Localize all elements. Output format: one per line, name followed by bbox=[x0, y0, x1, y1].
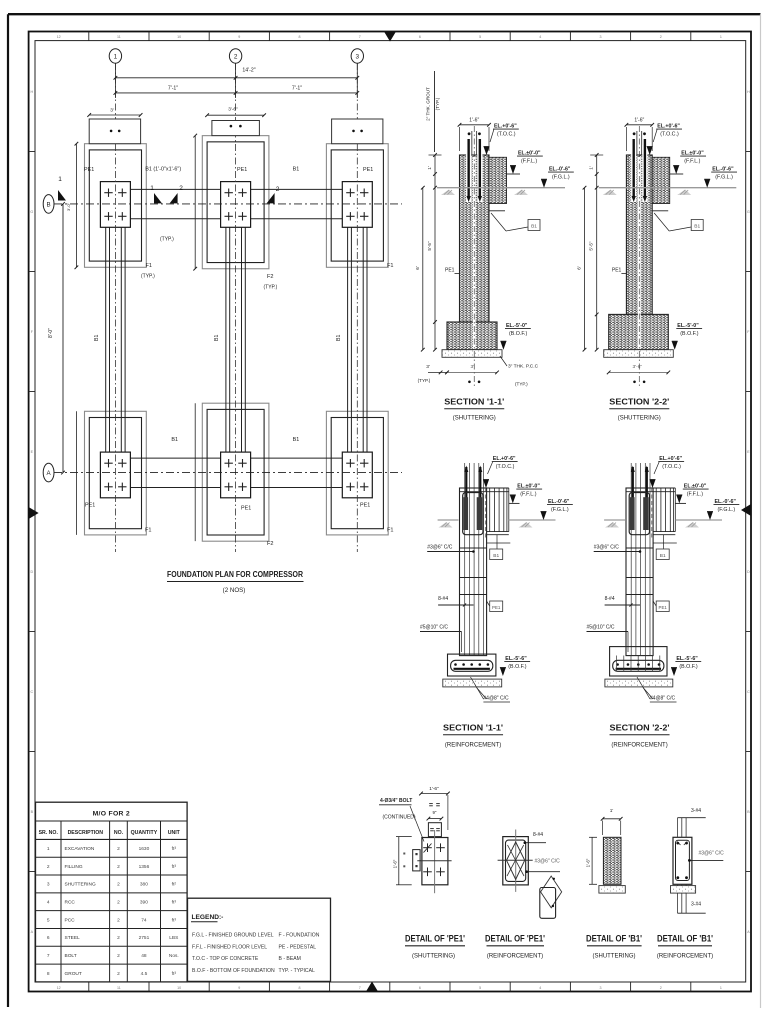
svg-text:ft³: ft³ bbox=[172, 917, 177, 923]
svg-text:EL.-5'-0": EL.-5'-0" bbox=[677, 323, 699, 329]
svg-text:11: 11 bbox=[117, 35, 121, 39]
svg-text:PE1: PE1 bbox=[612, 268, 622, 274]
svg-text:(TYP.): (TYP.) bbox=[435, 97, 440, 110]
svg-text:74: 74 bbox=[141, 917, 147, 923]
svg-text:SHUTTERING: SHUTTERING bbox=[65, 882, 96, 888]
svg-text:STEEL: STEEL bbox=[65, 935, 81, 941]
svg-text:EL.±0'-0": EL.±0'-0" bbox=[681, 151, 704, 157]
svg-text:DETAIL OF 'B1': DETAIL OF 'B1' bbox=[657, 934, 713, 944]
svg-text:PCC: PCC bbox=[65, 917, 76, 923]
svg-text:8: 8 bbox=[47, 971, 50, 977]
svg-text:1'-6": 1'-6" bbox=[634, 117, 644, 123]
svg-text:1356: 1356 bbox=[139, 864, 150, 870]
svg-text:2: 2 bbox=[117, 882, 120, 888]
svg-text:(SHUTTERING): (SHUTTERING) bbox=[453, 416, 496, 422]
svg-text:6': 6' bbox=[415, 266, 420, 270]
svg-text:F1: F1 bbox=[387, 263, 394, 269]
svg-text:48: 48 bbox=[141, 953, 147, 959]
svg-text:1'-6": 1'-6" bbox=[429, 786, 439, 792]
svg-text:2: 2 bbox=[117, 953, 120, 959]
svg-text:1'-6": 1'-6" bbox=[392, 859, 397, 868]
svg-text:3" THK. P.C.C: 3" THK. P.C.C bbox=[508, 364, 539, 370]
svg-text:(TYP.): (TYP.) bbox=[515, 382, 528, 387]
svg-text:EXCAVATION: EXCAVATION bbox=[65, 846, 95, 852]
svg-text:C: C bbox=[747, 690, 750, 694]
svg-text:(REINFORCEMENT): (REINFORCEMENT) bbox=[657, 954, 713, 960]
svg-text:3: 3 bbox=[356, 53, 360, 60]
svg-text:B1: B1 bbox=[660, 553, 666, 559]
svg-text:DETAIL OF 'B1': DETAIL OF 'B1' bbox=[586, 934, 642, 944]
svg-text:9: 9 bbox=[238, 986, 240, 990]
svg-text:5: 5 bbox=[479, 35, 481, 39]
svg-text:SECTION '2-2': SECTION '2-2' bbox=[610, 723, 670, 733]
svg-text:3-#4: 3-#4 bbox=[691, 902, 701, 908]
svg-text:G: G bbox=[747, 210, 750, 214]
svg-text:3: 3 bbox=[600, 986, 602, 990]
svg-text:SECTION '1-1': SECTION '1-1' bbox=[443, 723, 503, 733]
svg-text:D: D bbox=[747, 570, 750, 574]
svg-text:3'-0": 3'-0" bbox=[66, 202, 71, 211]
svg-text:F.G.L - FINISHED GROUND LEVEL: F.G.L - FINISHED GROUND LEVEL bbox=[192, 933, 274, 939]
svg-text:(F.F.L.): (F.F.L.) bbox=[684, 159, 700, 165]
svg-text:EL.+0'-6": EL.+0'-6" bbox=[494, 124, 517, 130]
svg-text:2: 2 bbox=[117, 935, 120, 941]
svg-text:PE1: PE1 bbox=[237, 167, 247, 173]
svg-text:PE1: PE1 bbox=[445, 268, 455, 274]
svg-text:EL.-5'-6": EL.-5'-6" bbox=[505, 656, 527, 662]
svg-text:(B.O.F.): (B.O.F.) bbox=[508, 664, 526, 670]
svg-text:4: 4 bbox=[539, 35, 541, 39]
svg-text:B.O.F - BOTTOM OF FOUNDATION: B.O.F - BOTTOM OF FOUNDATION bbox=[192, 968, 275, 974]
svg-text:B - BEAM: B - BEAM bbox=[279, 956, 301, 962]
svg-text:PE1: PE1 bbox=[360, 503, 370, 509]
svg-text:F1: F1 bbox=[387, 528, 394, 534]
svg-text:G: G bbox=[30, 210, 33, 214]
svg-text:2: 2 bbox=[117, 864, 120, 870]
svg-text:F2: F2 bbox=[267, 274, 274, 280]
svg-text:7'-1": 7'-1" bbox=[292, 86, 302, 92]
svg-text:ft³: ft³ bbox=[172, 900, 177, 906]
svg-text:7: 7 bbox=[359, 35, 361, 39]
svg-text:D: D bbox=[30, 570, 33, 574]
svg-text:10: 10 bbox=[177, 35, 181, 39]
svg-text:PE1: PE1 bbox=[492, 605, 501, 610]
svg-text:1: 1 bbox=[720, 986, 722, 990]
svg-text:T.O.C - TOP OF CONCRETE: T.O.C - TOP OF CONCRETE bbox=[192, 956, 259, 962]
svg-text:12: 12 bbox=[57, 35, 61, 39]
svg-text:6: 6 bbox=[419, 35, 421, 39]
svg-text:5'-5": 5'-5" bbox=[427, 241, 432, 251]
svg-text:14'-2": 14'-2" bbox=[242, 68, 255, 74]
svg-text:TYP. - TYPICAL: TYP. - TYPICAL bbox=[279, 968, 315, 974]
svg-text:2: 2 bbox=[117, 917, 120, 923]
svg-text:H: H bbox=[747, 90, 750, 94]
svg-text:B1 (1'-0"x1'-6"): B1 (1'-0"x1'-6") bbox=[145, 167, 181, 173]
svg-text:F.F.L - FINISHED FLOOR LEVEL: F.F.L - FINISHED FLOOR LEVEL bbox=[192, 944, 267, 950]
svg-text:380: 380 bbox=[140, 882, 148, 888]
svg-text:EL.-5'-6": EL.-5'-6" bbox=[676, 656, 698, 662]
svg-text:PE1: PE1 bbox=[363, 167, 373, 173]
svg-text:SR. NO.: SR. NO. bbox=[39, 830, 59, 836]
svg-text:1': 1' bbox=[610, 808, 614, 814]
svg-text:(F.G.L.): (F.G.L.) bbox=[715, 175, 733, 181]
svg-text:FILLING: FILLING bbox=[65, 864, 83, 870]
svg-text:EL.+0'-6": EL.+0'-6" bbox=[659, 456, 682, 462]
svg-text:2" THK. GROUT: 2" THK. GROUT bbox=[425, 87, 430, 121]
svg-text:EL.-0'-6": EL.-0'-6" bbox=[715, 499, 737, 505]
svg-text:SECTION '2-2': SECTION '2-2' bbox=[609, 397, 669, 407]
svg-text:(TYP.): (TYP.) bbox=[264, 285, 278, 291]
svg-text:4: 4 bbox=[47, 900, 50, 906]
svg-text:PE1: PE1 bbox=[84, 167, 94, 173]
svg-text:5: 5 bbox=[479, 986, 481, 990]
svg-text:1: 1 bbox=[720, 35, 722, 39]
svg-text:8'-0": 8'-0" bbox=[48, 328, 54, 338]
svg-text:ft³: ft³ bbox=[172, 846, 177, 852]
svg-text:6': 6' bbox=[577, 266, 582, 270]
svg-text:DETAIL OF 'PE1': DETAIL OF 'PE1' bbox=[405, 934, 465, 944]
svg-text:(B.O.F.): (B.O.F.) bbox=[509, 331, 527, 337]
svg-text:1630: 1630 bbox=[139, 846, 150, 852]
svg-text:RCC: RCC bbox=[65, 900, 76, 906]
svg-text:1: 1 bbox=[58, 176, 62, 183]
svg-text:#3@6" C/C: #3@6" C/C bbox=[535, 859, 561, 865]
svg-text:B1: B1 bbox=[531, 224, 537, 230]
svg-text:NO.: NO. bbox=[114, 830, 124, 836]
svg-text:5'-5": 5'-5" bbox=[589, 241, 594, 251]
svg-text:(TYP.): (TYP.) bbox=[141, 274, 155, 280]
svg-text:2: 2 bbox=[660, 35, 662, 39]
svg-text:ft²: ft² bbox=[172, 882, 177, 888]
svg-text:2: 2 bbox=[117, 846, 120, 852]
svg-text:4: 4 bbox=[539, 986, 541, 990]
svg-text:PE1: PE1 bbox=[241, 506, 251, 512]
svg-text:8-#4: 8-#4 bbox=[605, 596, 615, 602]
svg-text:F1: F1 bbox=[145, 528, 152, 534]
svg-text:3: 3 bbox=[600, 35, 602, 39]
svg-text:1': 1' bbox=[589, 166, 594, 170]
svg-text:1: 1 bbox=[47, 846, 50, 852]
svg-text:(TYP.): (TYP.) bbox=[160, 237, 174, 243]
svg-text:(F.G.L.): (F.G.L.) bbox=[718, 507, 736, 513]
svg-text:EL.+0'-6": EL.+0'-6" bbox=[493, 456, 516, 462]
svg-text:F1: F1 bbox=[146, 263, 153, 269]
svg-text:3': 3' bbox=[426, 364, 430, 370]
svg-text:#5@10" C/C: #5@10" C/C bbox=[420, 625, 448, 631]
svg-text:(SHUTTERING): (SHUTTERING) bbox=[593, 954, 636, 960]
svg-text:QUANTITY: QUANTITY bbox=[131, 830, 158, 836]
svg-text:(F.F.L.): (F.F.L.) bbox=[687, 492, 703, 498]
svg-text:#3@6" C/C: #3@6" C/C bbox=[427, 545, 453, 551]
svg-text:2: 2 bbox=[234, 53, 238, 60]
svg-text:(F.F.L.): (F.F.L.) bbox=[521, 159, 537, 165]
svg-text:(REINFORCEMENT): (REINFORCEMENT) bbox=[487, 954, 543, 960]
svg-text:(T.O.C.): (T.O.C.) bbox=[662, 464, 681, 470]
svg-text:(CONTINUED): (CONTINUED) bbox=[383, 815, 416, 821]
svg-text:DESCRIPTION: DESCRIPTION bbox=[68, 830, 104, 836]
svg-text:(REINFORCEMENT): (REINFORCEMENT) bbox=[445, 743, 501, 749]
svg-text:EL.-0'-6": EL.-0'-6" bbox=[549, 167, 571, 173]
svg-text:PE - PEDESTAL: PE - PEDESTAL bbox=[279, 944, 317, 950]
svg-text:6: 6 bbox=[419, 986, 421, 990]
svg-text:7'-1": 7'-1" bbox=[168, 86, 178, 92]
svg-text:EL.±0'-0": EL.±0'-0" bbox=[517, 484, 540, 490]
svg-text:2: 2 bbox=[660, 986, 662, 990]
svg-text:4.5: 4.5 bbox=[141, 971, 148, 977]
svg-text:DETAIL OF 'PE1': DETAIL OF 'PE1' bbox=[485, 934, 545, 944]
svg-text:1'-6": 1'-6" bbox=[469, 117, 479, 123]
svg-text:12: 12 bbox=[57, 986, 61, 990]
svg-text:(T.O.C.): (T.O.C.) bbox=[496, 464, 515, 470]
svg-text:2: 2 bbox=[117, 900, 120, 906]
svg-text:3': 3' bbox=[470, 364, 474, 370]
svg-text:#3@6" C/C: #3@6" C/C bbox=[594, 545, 620, 551]
svg-text:Nos.: Nos. bbox=[169, 953, 179, 959]
svg-text:2: 2 bbox=[276, 186, 280, 193]
svg-text:ft³: ft³ bbox=[172, 864, 177, 870]
svg-text:B1: B1 bbox=[293, 167, 300, 173]
svg-text:8-#4: 8-#4 bbox=[438, 596, 448, 602]
svg-text:8-#4: 8-#4 bbox=[533, 832, 543, 838]
svg-text:UNIT: UNIT bbox=[168, 830, 181, 836]
svg-text:6: 6 bbox=[47, 935, 50, 941]
svg-text:B1: B1 bbox=[94, 335, 100, 341]
svg-text:2: 2 bbox=[117, 971, 120, 977]
svg-text:EL.±0'-0": EL.±0'-0" bbox=[684, 484, 707, 490]
svg-text:EL.+0'-6": EL.+0'-6" bbox=[657, 124, 680, 130]
svg-text:1'-6": 1'-6" bbox=[586, 858, 591, 867]
svg-text:2: 2 bbox=[179, 185, 183, 192]
svg-text:B1: B1 bbox=[293, 437, 300, 443]
svg-text:B1: B1 bbox=[214, 335, 220, 341]
svg-text:3': 3' bbox=[110, 108, 114, 114]
svg-text:B1: B1 bbox=[336, 335, 342, 341]
svg-text:(F.G.L.): (F.G.L.) bbox=[552, 175, 570, 181]
svg-text:1: 1 bbox=[114, 53, 118, 60]
svg-text:(F.F.L.): (F.F.L.) bbox=[520, 492, 536, 498]
svg-text:390: 390 bbox=[140, 900, 148, 906]
svg-text:(REINFORCEMENT): (REINFORCEMENT) bbox=[611, 743, 667, 749]
svg-text:3: 3 bbox=[47, 882, 50, 888]
svg-text:B1: B1 bbox=[493, 553, 499, 559]
svg-text:B1: B1 bbox=[171, 437, 178, 443]
svg-text:EL.-0'-6": EL.-0'-6" bbox=[548, 499, 570, 505]
svg-text:4-Ø3/4" BOLT: 4-Ø3/4" BOLT bbox=[380, 798, 412, 804]
svg-text:#4@8" C/C: #4@8" C/C bbox=[483, 696, 509, 702]
svg-text:GROUT: GROUT bbox=[65, 971, 82, 977]
svg-text:2: 2 bbox=[47, 864, 50, 870]
svg-text:9: 9 bbox=[238, 35, 240, 39]
svg-text:1: 1 bbox=[150, 185, 154, 192]
svg-text:BOLT: BOLT bbox=[65, 953, 77, 959]
svg-text:C: C bbox=[30, 690, 33, 694]
svg-text:(B.O.F.): (B.O.F.) bbox=[680, 331, 698, 337]
svg-text:FOUNDATION PLAN FOR COMPRESSOR: FOUNDATION PLAN FOR COMPRESSOR bbox=[167, 569, 304, 579]
svg-text:EL.-0'-6": EL.-0'-6" bbox=[712, 167, 734, 173]
svg-text:M/O FOR 2: M/O FOR 2 bbox=[93, 810, 130, 817]
svg-text:5: 5 bbox=[47, 917, 50, 923]
svg-text:F2: F2 bbox=[267, 541, 274, 547]
svg-text:8: 8 bbox=[299, 35, 301, 39]
svg-text:3-#4: 3-#4 bbox=[691, 808, 701, 814]
svg-text:B: B bbox=[47, 201, 51, 208]
svg-text:LEGEND:-: LEGEND:- bbox=[192, 914, 224, 921]
svg-text:7: 7 bbox=[359, 986, 361, 990]
svg-text:F - FOUNDATION: F - FOUNDATION bbox=[279, 933, 320, 939]
svg-text:PE1: PE1 bbox=[85, 503, 95, 509]
svg-text:B1: B1 bbox=[694, 224, 700, 230]
svg-text:8: 8 bbox=[299, 986, 301, 990]
svg-text:(T.O.C.): (T.O.C.) bbox=[497, 132, 516, 138]
svg-text:2751: 2751 bbox=[139, 935, 150, 941]
svg-text:3'-6": 3'-6" bbox=[228, 107, 238, 113]
svg-text:(TYP.): (TYP.) bbox=[418, 378, 431, 383]
svg-text:1': 1' bbox=[427, 166, 432, 170]
svg-text:3'-6": 3'-6" bbox=[633, 364, 643, 370]
svg-text:#5@10" C/C: #5@10" C/C bbox=[587, 625, 615, 631]
svg-text:LBS: LBS bbox=[169, 935, 178, 941]
svg-text:ft³: ft³ bbox=[172, 971, 177, 977]
svg-text:(2 NOS): (2 NOS) bbox=[223, 587, 246, 594]
svg-text:7: 7 bbox=[47, 953, 50, 959]
svg-text:11: 11 bbox=[117, 986, 121, 990]
svg-text:(T.O.C.): (T.O.C.) bbox=[660, 132, 679, 138]
svg-text:SECTION '1-1': SECTION '1-1' bbox=[444, 397, 504, 407]
svg-text:EL.-5'-0": EL.-5'-0" bbox=[506, 323, 528, 329]
svg-text:(SHUTTERING): (SHUTTERING) bbox=[618, 416, 661, 422]
svg-text:#4@8" C/C: #4@8" C/C bbox=[650, 696, 676, 702]
svg-text:#3@6" C/C: #3@6" C/C bbox=[699, 851, 725, 857]
svg-text:PE1: PE1 bbox=[659, 605, 668, 610]
svg-text:(F.G.L.): (F.G.L.) bbox=[551, 507, 569, 513]
svg-text:9": 9" bbox=[432, 810, 436, 815]
svg-text:(B.O.F.): (B.O.F.) bbox=[679, 664, 697, 670]
svg-text:EL.±0'-0": EL.±0'-0" bbox=[518, 151, 541, 157]
svg-text:10: 10 bbox=[177, 986, 181, 990]
svg-text:(SHUTTERING): (SHUTTERING) bbox=[412, 954, 455, 960]
svg-text:H: H bbox=[30, 90, 33, 94]
